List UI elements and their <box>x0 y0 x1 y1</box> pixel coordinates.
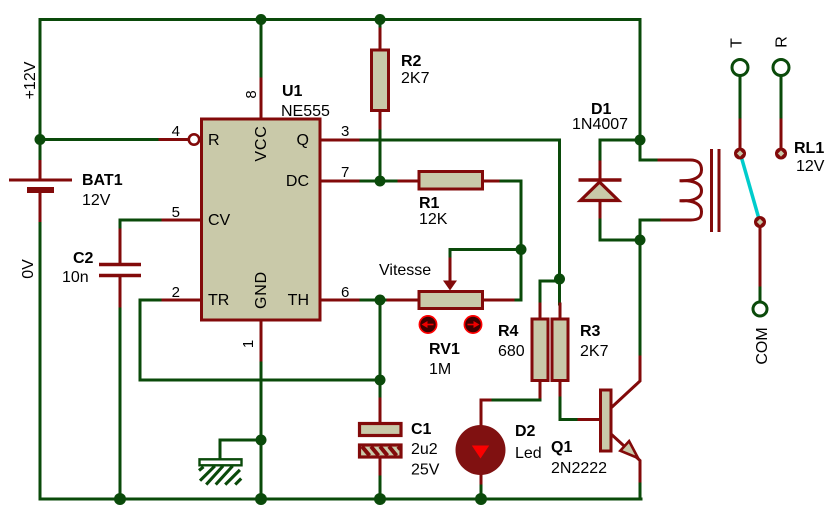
svg-text:6: 6 <box>341 284 349 301</box>
terminal COM <box>753 302 767 316</box>
svg-text:12K: 12K <box>419 211 448 228</box>
svg-text:R: R <box>208 132 220 149</box>
svg-text:R1: R1 <box>419 195 440 212</box>
svg-text:3: 3 <box>341 123 349 140</box>
wire collector <box>639 240 642 357</box>
relay coil RL1 <box>680 149 719 232</box>
svg-text:680: 680 <box>498 343 525 360</box>
svg-text:C1: C1 <box>411 421 432 438</box>
wire bottom rail 0V <box>40 222 641 499</box>
node dot battery/pin4 <box>35 134 46 145</box>
svg-text:5: 5 <box>172 204 180 221</box>
wire LED bottom <box>480 474 483 486</box>
node dot top rail R2 <box>375 14 386 25</box>
wire battery column <box>39 140 42 161</box>
svg-text:10n: 10n <box>62 269 89 286</box>
capacitor C1 <box>360 421 440 479</box>
svg-text:DC: DC <box>286 173 309 190</box>
svg-text:Q1: Q1 <box>551 439 572 456</box>
svg-text:1: 1 <box>240 340 257 348</box>
node dot rail LED <box>475 493 487 505</box>
wire C2 bottom <box>119 277 122 309</box>
relay contact T terminal <box>732 60 748 76</box>
wire emitter <box>611 434 640 484</box>
svg-text:GND: GND <box>253 271 270 309</box>
wire top rail +12V <box>40 20 640 140</box>
wire wiper branch <box>450 250 521 260</box>
wire D1 bottom branch <box>599 203 602 220</box>
svg-text:R3: R3 <box>580 323 601 340</box>
wire R1 left lead <box>380 180 399 183</box>
svg-text:TH: TH <box>288 292 309 309</box>
node dot rail C2 <box>114 493 126 505</box>
svg-text:RV1: RV1 <box>429 341 460 358</box>
node dot rail C1 <box>374 493 386 505</box>
wire VCC pin8 <box>260 20 263 80</box>
wire pin4 R net <box>40 138 160 141</box>
svg-text:8: 8 <box>243 90 260 98</box>
wire coil bottom lead <box>659 219 690 222</box>
wire C1 bottom <box>379 455 382 477</box>
resistor R4 <box>498 319 548 381</box>
svg-text:R2: R2 <box>401 53 422 70</box>
switch blade <box>741 156 759 219</box>
svg-text:BAT1: BAT1 <box>82 172 123 189</box>
capacitor C2 <box>62 250 141 286</box>
IC U1 NE555 body <box>202 119 321 320</box>
transistor Q1 2N2222 <box>551 390 638 477</box>
wire right drop from top rail <box>639 20 642 141</box>
node dot TR/C1 <box>375 375 386 386</box>
wire DC pin7 <box>321 180 361 183</box>
svg-text:Q: Q <box>297 132 309 149</box>
contact pivot R <box>775 148 787 160</box>
LED D2 <box>456 423 542 475</box>
wire R3 top branch <box>558 279 561 304</box>
node dot D1 top <box>635 135 646 146</box>
resistor R1 <box>419 172 483 229</box>
svg-text:COM: COM <box>754 327 771 364</box>
svg-text:2: 2 <box>172 284 180 301</box>
svg-text:2N2222: 2N2222 <box>551 460 607 477</box>
svg-text:D2: D2 <box>515 423 536 440</box>
wire D1 top branch <box>600 140 640 162</box>
contact pivot COM <box>754 216 766 228</box>
svg-text:2K7: 2K7 <box>401 70 430 87</box>
svg-text:25V: 25V <box>411 462 440 479</box>
svg-text:Led: Led <box>515 445 542 462</box>
svg-text:R: R <box>774 36 791 48</box>
wire TR pin2 loop <box>160 299 201 302</box>
resistor R2 <box>372 50 430 111</box>
wire Q pin3 output <box>321 139 361 142</box>
wire COM <box>759 228 762 288</box>
wire R4 top branch <box>540 281 560 304</box>
wire R2 bottom to DC node <box>379 111 382 132</box>
node dot TH <box>375 295 386 306</box>
svg-text:TR: TR <box>208 292 229 309</box>
battery BAT1 <box>9 172 123 209</box>
wire CV pin5 <box>160 219 201 222</box>
resistor R3 <box>552 319 609 381</box>
node dot D1 bottom <box>635 235 646 246</box>
relay contact R terminal <box>773 60 789 76</box>
svg-text:VCC: VCC <box>253 125 270 161</box>
svg-text:7: 7 <box>341 164 349 181</box>
node dot top rail VCC <box>256 14 267 25</box>
wire GND pin1 <box>260 320 263 363</box>
node dot R4/R3 <box>554 274 565 285</box>
node dot ground branch <box>256 435 267 446</box>
svg-text:0V: 0V <box>20 259 37 279</box>
svg-text:CV: CV <box>208 212 231 229</box>
diode D1 1N4007 <box>572 101 628 201</box>
wire coil top lead <box>640 140 659 160</box>
wire T contact <box>739 77 742 121</box>
svg-text:U1: U1 <box>282 83 303 100</box>
svg-text:4: 4 <box>172 123 180 140</box>
contact pivot T <box>734 148 746 160</box>
svg-text:1N4007: 1N4007 <box>572 116 628 133</box>
potentiometer RV1 <box>379 262 483 378</box>
svg-text:1M: 1M <box>429 361 451 378</box>
svg-text:12V: 12V <box>796 158 825 175</box>
node dot DC/R1/R2 <box>375 176 386 187</box>
wire R4 bottom to LED <box>539 381 542 399</box>
pot button left <box>419 316 436 333</box>
svg-text:2u2: 2u2 <box>411 441 438 458</box>
U1 labels <box>208 83 330 309</box>
svg-text:Vitesse: Vitesse <box>379 262 431 279</box>
ground <box>199 459 242 484</box>
svg-text:C2: C2 <box>73 250 94 267</box>
node dot rail GND <box>255 493 267 505</box>
pot button right <box>464 316 481 333</box>
wire R3 bottom to base <box>559 381 562 399</box>
pin bubble R input <box>189 134 199 144</box>
svg-text:12V: 12V <box>82 192 111 209</box>
svg-text:T: T <box>729 38 746 48</box>
wire ground branch <box>220 440 261 459</box>
wire R2 top <box>379 20 382 30</box>
wire TH pin6 <box>321 299 361 302</box>
wire TH to C1 column <box>379 300 382 399</box>
wire R contact <box>780 77 783 121</box>
node dot wiper <box>516 244 527 255</box>
svg-text:2K7: 2K7 <box>580 343 609 360</box>
wire R1 right to RV1 right <box>483 180 502 183</box>
svg-text:NE555: NE555 <box>281 103 330 120</box>
svg-text:+12V: +12V <box>22 61 39 99</box>
svg-text:RL1: RL1 <box>794 140 824 157</box>
svg-text:R4: R4 <box>498 323 519 340</box>
